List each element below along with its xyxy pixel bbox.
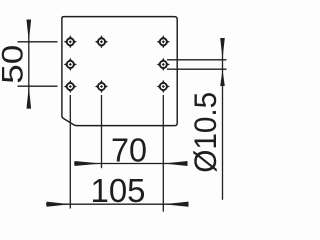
mounting plate outline	[62, 17, 177, 126]
arrow 70 left	[75, 161, 102, 166]
svg-text:Ø10.5: Ø10.5	[187, 92, 223, 173]
hole A3 (bottom-left)	[64, 80, 77, 93]
extension line bottom row left	[18, 85, 58, 87]
arrow dia bottom	[220, 70, 225, 86]
hole C1 (top-right)	[157, 35, 170, 48]
extension line top row left	[18, 41, 58, 43]
extension line col right (for 70 and 105)	[162, 95, 164, 212]
hole A1 (top-left)	[64, 35, 77, 48]
extension line col left (for 105)	[69, 95, 71, 209]
svg-text:105: 105	[91, 172, 146, 209]
hole B1 (top-middle)	[95, 35, 108, 48]
svg-text:70: 70	[111, 132, 147, 169]
hole A2 (middle-left)	[64, 58, 77, 71]
arrow 105 right	[163, 202, 188, 207]
hole C3 (bottom-right)	[157, 80, 170, 93]
dimension line dia 10.5	[222, 38, 224, 200]
dimension line 50	[28, 20, 30, 109]
dimension line 70	[74, 163, 188, 165]
extension line col middle (for 70)	[101, 95, 103, 168]
hole C2 (middle-right)	[157, 58, 170, 71]
svg-text:50: 50	[0, 45, 30, 84]
arrow 70 right	[163, 161, 187, 166]
arrow 105 left	[47, 202, 71, 207]
dimension line 105	[46, 203, 189, 205]
arrow 50 bottom	[27, 86, 32, 108]
arrow 50 top	[27, 20, 32, 42]
hole B3 (bottom-middle)	[95, 80, 108, 93]
tangent extension line hole top	[167, 59, 227, 61]
tangent extension line hole bottom	[167, 68, 227, 70]
arrow dia top	[220, 38, 225, 59]
